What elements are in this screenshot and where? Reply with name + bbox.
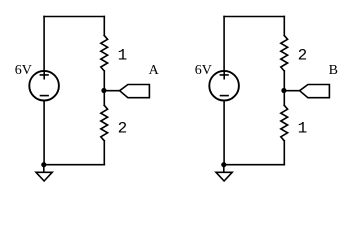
wire: stub from top rail to resistor R22 <box>283 17 285 36</box>
wire: stub from resistor R21 to bottom rail <box>103 141 105 165</box>
wire: left vertical from source V2 to bottom rail <box>223 101 225 165</box>
wire: stub from top rail to resistor R11 <box>103 17 105 36</box>
node: ground junction dot of circuit 2 <box>221 162 226 167</box>
wire: stub from resistor R12 to bottom rail <box>283 141 285 165</box>
wire: stub from bottom rail to ground symbol 2 <box>223 165 225 173</box>
node A: junction dot <box>101 88 106 93</box>
ground symbol of circuit 2 <box>216 172 232 181</box>
svg-text:1: 1 <box>118 47 128 65</box>
node B: junction dot <box>281 88 286 93</box>
wire: bottom rail of circuit 2 <box>224 164 284 166</box>
wire: probe lead from node B <box>284 90 299 92</box>
resistor R11 (top) zigzag <box>101 35 108 71</box>
voltage source V1 minus sign <box>41 95 49 97</box>
wire: left vertical from source V1 to bottom rail <box>43 101 45 165</box>
wire: stub from resistor R22 to node B <box>283 71 285 91</box>
ground symbol of circuit 1 <box>36 172 52 181</box>
svg-text:6V: 6V <box>15 63 32 78</box>
wire: left vertical from top rail to source V2 <box>223 17 225 71</box>
svg-text:6V: 6V <box>195 63 212 78</box>
resistor R12 (bottom) zigzag <box>281 105 288 140</box>
wire: top rail of circuit 1 <box>44 16 104 18</box>
wire: stub from node B to resistor R12 <box>283 91 285 106</box>
voltage source V2 (6V) circle <box>209 71 239 101</box>
resistor R21 (bottom) zigzag <box>101 105 108 140</box>
wire: top rail of circuit 2 <box>224 16 284 18</box>
svg-text:B: B <box>329 63 338 78</box>
svg-text:2: 2 <box>118 120 128 138</box>
node: ground junction dot of circuit 1 <box>41 162 46 167</box>
wire: probe lead from node A <box>104 90 119 92</box>
svg-text:1: 1 <box>298 120 308 138</box>
resistor R22 (top) zigzag <box>281 35 288 71</box>
probe tag A (pointed flag) <box>120 85 150 98</box>
wire: stub from bottom rail to ground symbol 1 <box>43 165 45 173</box>
voltage source V1 plus sign <box>40 71 48 79</box>
voltage source V2 plus sign <box>220 71 228 79</box>
wire: left vertical from top rail to source V1 <box>43 17 45 71</box>
wire: stub from node A to resistor R21 <box>103 91 105 106</box>
probe tag B (pointed flag) <box>300 85 330 98</box>
wire: bottom rail of circuit 1 <box>44 164 105 166</box>
wire: stub from resistor R11 to node A <box>103 71 105 91</box>
svg-text:2: 2 <box>298 47 308 65</box>
svg-text:A: A <box>149 63 160 78</box>
voltage source V1 (6V) circle <box>29 71 59 101</box>
voltage source V2 minus sign <box>221 95 229 97</box>
